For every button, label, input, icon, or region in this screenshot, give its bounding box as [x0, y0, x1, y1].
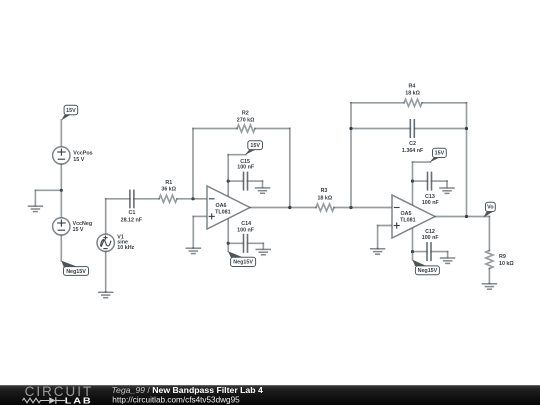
wire — [105, 199, 107, 234]
node junction — [227, 242, 230, 245]
node junction — [227, 180, 230, 183]
svg-text:LAB: LAB — [65, 396, 93, 405]
resistor R9 — [486, 251, 515, 269]
wire — [193, 128, 237, 130]
node junction — [349, 127, 352, 130]
wire — [227, 155, 229, 181]
voltage source VccPos — [53, 147, 93, 164]
voltage source VccNeg — [53, 218, 93, 235]
wire — [105, 252, 107, 292]
CircuitLab logo — [23, 384, 94, 405]
op-amp OA5 TL081 — [392, 195, 435, 238]
node junction — [60, 189, 63, 192]
wire — [412, 252, 414, 260]
wire (OA5 V+ pin) — [412, 181, 414, 207]
wire — [192, 216, 194, 247]
wire — [192, 129, 194, 199]
wire — [134, 198, 159, 200]
wire — [413, 251, 428, 253]
resistor R2 — [237, 110, 255, 132]
wire — [250, 207, 316, 209]
wire — [351, 102, 404, 104]
net flag Neg15V (C14) — [228, 251, 256, 266]
node junction — [288, 206, 291, 209]
ground — [440, 181, 454, 193]
wire (OA6 V- pin) — [227, 217, 229, 243]
svg-text:http://circuitlab.com/cfs4tv53: http://circuitlab.com/cfs4tv53dwg95 — [112, 395, 240, 404]
wire — [351, 128, 410, 130]
wire — [488, 217, 490, 251]
wire — [228, 242, 243, 244]
ground — [99, 292, 113, 298]
wire — [228, 180, 243, 182]
wire — [60, 164, 62, 190]
resistor R1 — [159, 180, 177, 202]
wire — [466, 103, 468, 217]
wire — [488, 269, 490, 284]
wire — [334, 207, 392, 209]
capacitor C12 — [422, 229, 440, 260]
resistor R3 — [316, 188, 334, 211]
node junction — [191, 197, 194, 200]
wire — [177, 198, 207, 200]
wire — [255, 128, 290, 130]
wire — [414, 128, 466, 130]
wire — [289, 129, 291, 208]
wire — [227, 243, 229, 251]
op-amp OA6 TL081 — [207, 186, 250, 229]
wire — [377, 226, 379, 249]
ground — [441, 252, 455, 264]
wire (+ input) — [193, 215, 207, 217]
ground — [482, 283, 496, 289]
wire — [432, 180, 448, 182]
wire — [60, 190, 62, 217]
ground — [371, 248, 385, 254]
net flag 15V (C15) — [245, 141, 263, 155]
net flag Neg15V (left) — [61, 261, 88, 276]
ground — [256, 181, 270, 193]
net flag 15V (C13) — [429, 148, 446, 162]
net flag Vo — [483, 202, 495, 217]
wire — [413, 180, 428, 182]
node junction — [411, 180, 414, 183]
wire (OA5 V- pin) — [412, 226, 414, 252]
wire (+ input) — [378, 225, 392, 227]
node junction — [349, 206, 352, 209]
capacitor C1 — [121, 190, 143, 223]
voltage source V1 (sine) — [97, 234, 135, 251]
node junction — [465, 127, 468, 130]
node junction — [411, 250, 414, 253]
footer bar — [0, 385, 540, 405]
wire — [60, 235, 62, 261]
capacitor C2 — [402, 120, 424, 154]
ground — [256, 243, 270, 255]
wire — [413, 161, 431, 163]
wire — [35, 189, 61, 191]
wire — [435, 216, 489, 218]
wire (OA6 V+ pin) — [227, 181, 229, 198]
wire — [431, 251, 448, 253]
capacitor C13 — [422, 172, 440, 206]
wire — [350, 103, 352, 208]
resistor R4 — [404, 83, 422, 106]
node junction — [465, 215, 468, 218]
capacitor C14 — [237, 221, 255, 252]
wire — [248, 180, 263, 182]
ground — [28, 190, 42, 211]
wire — [228, 154, 246, 156]
net flag Neg15V (C12) — [412, 260, 439, 275]
wire — [60, 120, 62, 147]
capacitor C15 — [237, 159, 255, 190]
net flag 15V (top left) — [61, 105, 77, 120]
wire — [106, 198, 130, 200]
wire — [422, 102, 467, 104]
wire — [412, 162, 414, 181]
wire — [248, 242, 264, 244]
ground — [186, 248, 200, 254]
svg-text:Tega_99 / New Bandpass Filter: Tega_99 / New Bandpass Filter Lab 4 — [112, 385, 263, 395]
